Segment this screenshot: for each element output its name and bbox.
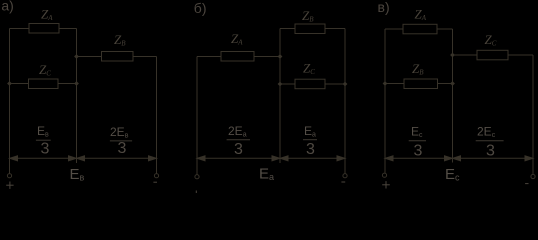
- svg-text:б): б): [194, 0, 207, 16]
- terminal a left: [7, 174, 11, 178]
- minus sign v: [525, 183, 528, 185]
- dimension line v left span: [387, 157, 452, 159]
- wire parallel branch a left segment: [10, 83, 29, 85]
- fraction bar b right: [303, 139, 317, 141]
- node b mid bottom junction: [278, 82, 283, 87]
- node v left parallel junction: [383, 81, 388, 86]
- dimension line b left span: [199, 157, 279, 159]
- fraction bar v right: [476, 140, 504, 142]
- wire bottom branch b right segment: [325, 83, 345, 85]
- wire left rail v: [384, 29, 386, 173]
- wire right rail v: [532, 55, 534, 174]
- plus sign v: [382, 184, 390, 186]
- wire series branch b left segment: [197, 56, 221, 58]
- plus sign a: [6, 184, 13, 186]
- resistor Za b: [221, 52, 254, 62]
- wire series branch a right segment: [133, 56, 157, 58]
- wire bottom branch b left segment: [280, 83, 295, 85]
- wire middle rail a: [76, 29, 78, 164]
- resistor ZC: [29, 79, 59, 89]
- resistor Zb v: [404, 79, 438, 89]
- polarity signs: [6, 181, 528, 193]
- svg-text:3: 3: [41, 141, 50, 158]
- wire parallel branch a right segment: [58, 83, 77, 85]
- node v mid parallel junction: [450, 81, 455, 86]
- resistor Za v: [403, 24, 437, 34]
- dimension line a left span: [11, 157, 75, 159]
- fraction bar a left: [36, 139, 51, 141]
- node a mid parallel junction: [74, 81, 79, 86]
- dimension line a right span: [78, 157, 155, 159]
- minus sign b: [341, 181, 345, 183]
- terminal v left: [382, 173, 386, 177]
- wire top branch b left segment: [280, 28, 295, 30]
- terminal b right: [343, 174, 347, 178]
- wire parallel branch v right segment: [438, 83, 453, 85]
- wire series branch b right segment: [254, 56, 280, 58]
- terminals: [7, 173, 535, 179]
- wire left rail b: [196, 57, 198, 175]
- svg-text:3: 3: [118, 140, 127, 157]
- wire middle rail v: [452, 29, 454, 163]
- wire top branch b right segment: [325, 28, 345, 30]
- plus sign b (clipped): [195, 191, 197, 194]
- node a left parallel junction: [7, 81, 12, 86]
- wire parallel branch v left segment: [385, 83, 404, 85]
- svg-text:3: 3: [486, 143, 495, 160]
- wire series branch v left segment: [453, 54, 478, 56]
- svg-text:3: 3: [414, 143, 423, 160]
- fraction bar b left: [227, 139, 250, 141]
- svg-text:в): в): [378, 0, 390, 15]
- minus sign a: [153, 181, 157, 183]
- svg-text:3: 3: [306, 141, 315, 158]
- fraction bar a right: [110, 140, 132, 142]
- resistor Zc v: [477, 50, 508, 60]
- node v mid-series junction: [450, 53, 455, 58]
- wire top rail a left segment: [10, 28, 30, 30]
- resistor ZA: [29, 24, 59, 34]
- wire middle rail b: [279, 29, 281, 164]
- terminal v right: [531, 174, 535, 178]
- terminal b left: [195, 175, 199, 179]
- node a mid-series junction: [74, 54, 79, 59]
- wire right rail b: [344, 29, 346, 174]
- dimension line b right span: [282, 157, 344, 159]
- wire series branch a left segment: [77, 56, 102, 58]
- wire top rail a right segment: [59, 28, 77, 30]
- fraction bars: [36, 140, 504, 141]
- resistor Zc b: [295, 79, 325, 89]
- dimension arrows: [10, 156, 534, 161]
- dimension line v right span: [454, 157, 532, 159]
- wire series branch v right segment: [508, 54, 533, 56]
- terminal a right: [154, 174, 158, 178]
- svg-text:3: 3: [234, 141, 243, 158]
- wire left rail a: [9, 29, 11, 174]
- node b right bottom junction: [343, 82, 348, 87]
- wire right rail a: [156, 57, 158, 174]
- wire top rail v right segment: [437, 28, 453, 30]
- fraction bar v left: [409, 140, 426, 142]
- wire top rail v left segment: [385, 28, 403, 30]
- svg-text:а): а): [1, 0, 13, 14]
- resistor Zb b: [295, 24, 325, 34]
- junction nodes: [7, 53, 455, 87]
- resistor ZB: [102, 52, 134, 62]
- node b series junction: [278, 54, 283, 59]
